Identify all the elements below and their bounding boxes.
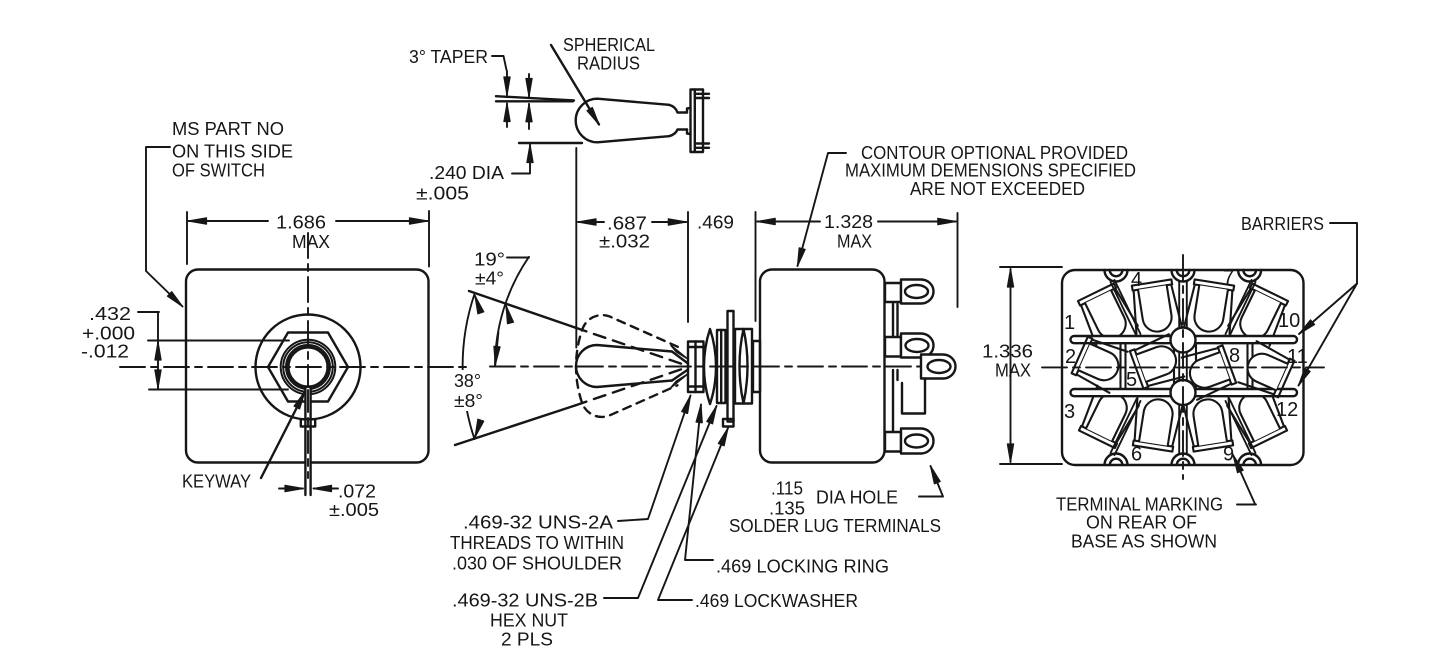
svg-text:MAX: MAX [995, 361, 1031, 381]
svg-text:.115: .115 [771, 479, 803, 499]
front view vertical centerline [307, 233, 309, 478]
SPHERICAL RADIUS leader arrow [551, 45, 599, 125]
vertical center slot [1179, 281, 1187, 454]
svg-text:.469 LOCKING RING: .469 LOCKING RING [716, 557, 889, 577]
svg-text:1.328: 1.328 [824, 212, 873, 232]
threaded bushing [688, 342, 704, 393]
solder lug terminal 2 [1071, 334, 1128, 392]
hex nut side view [735, 329, 752, 404]
19 degree dimension arc [495, 257, 529, 367]
dimension 1.686 MAX [187, 211, 429, 267]
detail lever tip outline [576, 99, 669, 143]
locking ring [704, 329, 716, 404]
38 degree dimension arc [463, 294, 475, 439]
rear view horizontal centerline [1042, 366, 1324, 368]
svg-text:11: 11 [1287, 346, 1308, 368]
dimension .687 ±.032 [576, 148, 686, 348]
dashed throw envelope [576, 315, 678, 417]
solder lug terminal 8 [1182, 343, 1237, 400]
svg-text:38°: 38° [454, 371, 481, 391]
barrier bar upper [1071, 336, 1298, 343]
leader .469 LOCKING RING [685, 405, 713, 561]
side view horizontal centerline [490, 366, 933, 368]
svg-text:2: 2 [1065, 346, 1076, 368]
svg-text:.469-32 UNS-2A: .469-32 UNS-2A [463, 513, 613, 533]
middle solder lug terminal (front) [885, 334, 934, 358]
svg-text:BASE AS SHOWN: BASE AS SHOWN [1071, 532, 1217, 552]
solder lug terminal 5 [1129, 334, 1184, 391]
dimension .469 (bushing) [688, 212, 756, 322]
solder lug terminal 10 [1228, 282, 1291, 347]
center circle lower [1171, 380, 1196, 405]
svg-text:.432: .432 [89, 304, 131, 324]
svg-text:SPHERICAL: SPHERICAL [563, 35, 655, 55]
front view switch housing outline [186, 270, 429, 463]
svg-text:ON THIS SIDE: ON THIS SIDE [172, 142, 293, 162]
3 degree taper reference lines [496, 100, 573, 102]
svg-text:MS PART NO: MS PART NO [172, 119, 284, 139]
lever base wedge bottom [671, 375, 687, 388]
solder lug terminal 1 [1075, 282, 1138, 347]
svg-text:MAX: MAX [292, 232, 330, 252]
svg-text:.030 OF SHOULDER: .030 OF SHOULDER [452, 554, 622, 574]
3 TAPER label leader [492, 56, 507, 70]
solder lug terminal 4 [1129, 279, 1182, 335]
barrier bar lower [1071, 389, 1298, 396]
second hex nut (2 PLS) [753, 341, 760, 392]
middle solder lug terminal (rear) [902, 355, 956, 414]
svg-text:.469: .469 [697, 213, 734, 233]
svg-text:BARRIERS: BARRIERS [1241, 214, 1324, 234]
svg-text:+.000: +.000 [82, 324, 135, 344]
switch body side view [760, 270, 885, 463]
top solder lug terminal [885, 280, 934, 304]
svg-text:-.012: -.012 [81, 342, 129, 362]
svg-text:ON REAR OF: ON REAR OF [1086, 513, 1197, 533]
svg-text:THREADS TO WITHIN: THREADS TO WITHIN [450, 533, 624, 553]
middle row cell walls [1121, 343, 1253, 389]
bushing thread circles [281, 340, 336, 395]
svg-text:SOLDER LUG TERMINALS: SOLDER LUG TERMINALS [729, 516, 941, 536]
svg-text:4: 4 [1131, 269, 1142, 291]
svg-text:MAXIMUM DEMENSIONS SPECIFIED: MAXIMUM DEMENSIONS SPECIFIED [845, 161, 1136, 181]
leader .115/.135 DIA HOLE [919, 466, 943, 497]
svg-text:HEX NUT: HEX NUT [490, 611, 568, 631]
svg-text:.072: .072 [338, 482, 376, 502]
mounting bushing outer circle [256, 315, 361, 420]
CONTOUR OPTIONAL note leader [798, 153, 847, 266]
svg-text:±.005: ±.005 [329, 500, 379, 520]
svg-text:1: 1 [1064, 312, 1075, 334]
svg-text:OF SWITCH: OF SWITCH [172, 161, 265, 181]
leader .469-32 UNS-2A threads [618, 396, 691, 522]
leader .469-32 UNS-2B hex nut [604, 406, 717, 598]
diagonal barrier spokes [1111, 280, 1256, 455]
dimension 1.336 MAX [1000, 267, 1062, 464]
TERMINAL MARKING leader [1237, 504, 1256, 506]
svg-text:TERMINAL MARKING: TERMINAL MARKING [1056, 495, 1223, 515]
svg-text:8: 8 [1229, 345, 1240, 367]
19 degree label tick [507, 257, 529, 259]
dimension .432 +.000 -.012 [138, 312, 289, 390]
.240 DIA dimension tangent line [519, 142, 582, 144]
taper dimension arrows [507, 71, 529, 129]
rear view vertical centerline [1182, 255, 1184, 479]
solder lug terminal 11 [1238, 341, 1295, 399]
svg-text:19°: 19° [474, 250, 505, 270]
keyway leader arrow [261, 392, 305, 479]
hex nut front view [268, 333, 348, 402]
svg-text:1.686: 1.686 [276, 213, 326, 233]
lever converge lines to pivot [672, 352, 688, 381]
svg-text:6: 6 [1131, 444, 1142, 466]
svg-text:.469-32 UNS-2B: .469-32 UNS-2B [452, 591, 598, 611]
toggle lever (center position) [576, 345, 672, 387]
toggle hole circles [286, 345, 330, 389]
svg-text:2 PLS: 2 PLS [501, 630, 553, 650]
svg-text:7: 7 [1223, 267, 1234, 289]
rear view base outline [1062, 270, 1304, 465]
svg-text:.687: .687 [607, 214, 647, 234]
upper throw angle line [469, 291, 575, 328]
svg-text:12: 12 [1276, 399, 1298, 421]
detail lever flange [691, 90, 710, 153]
svg-text:RADIUS: RADIUS [577, 54, 640, 74]
svg-text:±8°: ±8° [454, 391, 483, 411]
svg-text:±4°: ±4° [475, 269, 504, 289]
lower throw angle line [455, 406, 575, 446]
dimension .072 ±.005 [279, 488, 338, 490]
terminal base edge lines [893, 304, 898, 431]
svg-text:ARE NOT EXCEEDED: ARE NOT EXCEEDED [910, 179, 1085, 199]
svg-text:1.336: 1.336 [982, 342, 1033, 362]
svg-text:KEYWAY: KEYWAY [182, 472, 251, 492]
flat washer [717, 330, 726, 403]
dimension 1.328 MAX [757, 213, 957, 307]
detail lever shoulder step [687, 108, 691, 134]
top edge bumps [1105, 270, 1262, 282]
svg-text:.240 DIA: .240 DIA [429, 163, 504, 183]
bottom solder lug terminal [885, 429, 934, 454]
solder lug terminal 9 [1183, 396, 1236, 452]
center circle upper [1171, 328, 1196, 353]
svg-text:3: 3 [1064, 401, 1075, 423]
detail lever neck fillets [669, 105, 687, 113]
keyway slot [301, 388, 315, 495]
bottom edge bumps [1105, 454, 1262, 466]
lockwasher with tab [723, 311, 734, 427]
solder lug terminal 7 [1184, 279, 1237, 335]
solder lug terminal 12 [1227, 385, 1290, 450]
.240 DIA leader [512, 145, 530, 174]
lever base wedge top [671, 346, 687, 359]
svg-text:DIA HOLE: DIA HOLE [816, 488, 898, 508]
svg-text:±.005: ±.005 [416, 184, 469, 204]
MS PART NO note leader [146, 147, 183, 307]
solder lug terminal 3 [1076, 385, 1139, 450]
svg-text:±.032: ±.032 [599, 232, 650, 252]
BARRIERS label leader [1330, 223, 1357, 284]
38 degree labels [450, 370, 487, 411]
svg-text:.469 LOCKWASHER: .469 LOCKWASHER [695, 591, 858, 611]
front view horizontal centerline [120, 366, 470, 368]
solder lug terminal 6 [1130, 396, 1183, 452]
svg-text:5: 5 [1126, 369, 1137, 391]
svg-text:3° TAPER: 3° TAPER [409, 47, 488, 67]
svg-text:MAX: MAX [837, 232, 872, 252]
leader .469 LOCKWASHER [658, 428, 728, 600]
svg-text:10: 10 [1278, 310, 1300, 332]
